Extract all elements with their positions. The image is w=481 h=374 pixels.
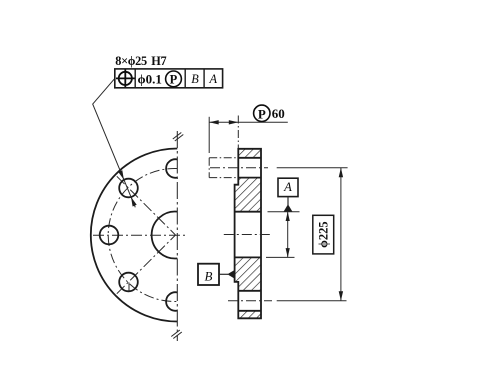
bore dim bottom arrow xyxy=(286,248,290,257)
svg-text:ϕ0.1: ϕ0.1 xyxy=(138,72,162,87)
break tick top xyxy=(173,133,184,142)
svg-text:P: P xyxy=(258,106,266,121)
front view bolt circle (dash-dot) xyxy=(108,169,177,302)
leader from tolerance frame xyxy=(93,78,136,207)
hatch region bottom band xyxy=(238,311,261,319)
hatch region block3 xyxy=(235,257,261,290)
front view horizontal centerline xyxy=(93,234,186,236)
P60 projected symbol circle xyxy=(254,105,270,121)
leader arrowhead lower (phi25 dim) xyxy=(131,197,137,207)
svg-text:B: B xyxy=(205,268,213,283)
break tick bottom xyxy=(171,330,182,339)
hatch region block2 xyxy=(235,178,261,212)
P60 right extension line (chain) xyxy=(237,116,239,149)
bolt hole at 225deg xyxy=(119,273,138,292)
P60 left extension line xyxy=(208,117,210,153)
bore dimension line with arrows xyxy=(287,212,289,258)
phi225 bottom arrow xyxy=(339,291,343,301)
datum A stem xyxy=(287,197,289,206)
svg-text:B: B xyxy=(191,72,199,86)
svg-text:8×ϕ25 H7: 8×ϕ25 H7 xyxy=(115,54,167,68)
hatch region top band xyxy=(238,149,261,158)
projected tolerance symbol P in frame xyxy=(166,71,182,87)
projected tolerance zone box xyxy=(209,158,238,178)
bolt hole 225deg vertical tick xyxy=(128,283,130,291)
section hole2 edges xyxy=(238,291,261,311)
datum A triangle xyxy=(284,204,293,211)
position symbol xyxy=(116,69,135,87)
bolt hole at 90deg xyxy=(166,159,177,178)
datum B box xyxy=(198,264,219,285)
datum A box xyxy=(278,178,298,196)
svg-text:ϕ225: ϕ225 xyxy=(317,221,331,248)
section hole2 centerline xyxy=(228,300,272,302)
svg-text:A: A xyxy=(283,180,292,194)
front view radial centerline 225deg xyxy=(117,235,176,294)
tolerance frame box xyxy=(115,69,223,88)
front view radial centerline 135deg xyxy=(117,176,176,235)
phi225 dimension line xyxy=(340,168,342,301)
bolt hole at 270deg xyxy=(166,292,177,311)
bolt hole at 135deg xyxy=(119,179,138,198)
section hole1 centerline extension to dim xyxy=(277,167,348,169)
front view outer arc xyxy=(91,149,178,322)
section outline xyxy=(235,149,261,318)
datum B leader xyxy=(219,273,228,275)
bore dim top arrow xyxy=(286,212,290,221)
phi225 basic dim box xyxy=(313,215,334,254)
section bore edges xyxy=(235,212,261,258)
section hole2 centerline extension to dim xyxy=(277,300,347,302)
section bore centerline xyxy=(224,234,272,236)
svg-text:A: A xyxy=(209,72,218,86)
phi225 top arrow xyxy=(339,168,343,178)
bore lower extension line xyxy=(266,256,295,258)
bore upper extension line xyxy=(268,211,300,213)
svg-text:P: P xyxy=(170,72,178,86)
leader arrowhead upper (phi25 dim) xyxy=(118,170,124,180)
section hole1 centerline xyxy=(210,167,268,169)
tolerance frame dividers xyxy=(135,69,204,88)
P60 right arrow xyxy=(229,120,239,124)
front view break line xyxy=(176,131,178,341)
front view central bore circle xyxy=(152,211,178,258)
datum B triangle xyxy=(227,270,234,279)
svg-text:60: 60 xyxy=(272,106,285,121)
section hole1 edges xyxy=(238,158,261,178)
P60 dimension line xyxy=(209,121,288,123)
bolt hole at 180deg xyxy=(100,226,119,245)
P60 left arrow xyxy=(209,120,219,124)
